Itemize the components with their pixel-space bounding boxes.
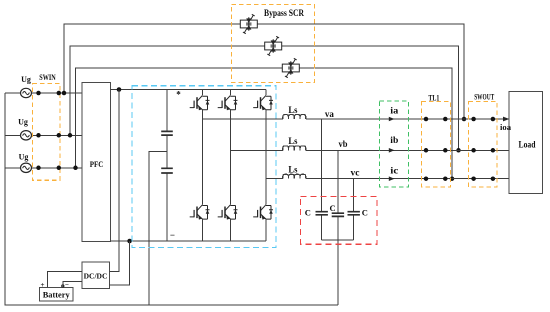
svg-text:va: va [325, 109, 335, 119]
svg-text:TL1: TL1 [428, 92, 439, 102]
wire battery positive to DC/DC [47, 271, 82, 287]
svg-text:−: − [170, 230, 175, 240]
IGBT Q3 upper leg3 with antiparallel diode [253, 95, 273, 110]
svg-text:C: C [362, 207, 368, 217]
current arrow ic [389, 176, 395, 181]
IGBT Q6 lower leg3 with antiparallel diode [253, 205, 273, 220]
svg-text:Bypass SCR: Bypass SCR [264, 8, 304, 18]
IGBT Q4 lower leg1 with antiparallel diode [190, 205, 210, 220]
svg-text:Load: Load [519, 140, 536, 150]
wire phase b to load [306, 149, 509, 151]
wire leg3 collector from DC+ [265, 90, 267, 96]
battery negative terminal mark [62, 285, 64, 287]
bypass SCR module phase A [240, 14, 257, 33]
junction dots TL1 phase a [424, 117, 429, 122]
svg-text:ia: ia [390, 105, 399, 115]
wire phase a to load [306, 118, 509, 120]
wire bypass phase A tap to SCR and to output node a [64, 24, 464, 119]
IGBT Q5 lower leg2 with antiparallel diode [218, 205, 238, 220]
inverter dashed box [132, 86, 276, 248]
AC source Ug phase B [21, 131, 32, 140]
wire phase C: source to PFC [5, 167, 82, 169]
wire leg2 collector from DC+ [230, 90, 232, 96]
output filter capacitor C phase b [337, 150, 339, 240]
wire capacitor bank common to neutral rail [337, 240, 339, 305]
wire phase B: source to PFC [5, 134, 82, 136]
svg-text:Ls: Ls [288, 105, 297, 115]
wire phase c leg3 to inductor [266, 178, 283, 180]
wire phase a leg1 to inductor [203, 118, 283, 120]
output filter capacitor C phase a [321, 119, 323, 240]
svg-text:Battery: Battery [43, 290, 71, 300]
svg-text:+: + [41, 281, 45, 289]
IGBT Q2 upper leg2 with antiparallel diode [218, 95, 238, 110]
wire leg2 emitter to DC- [230, 219, 232, 241]
inductor Ls phase a [283, 115, 306, 119]
wire capacitor bank common [322, 239, 354, 241]
svg-text:−: − [65, 281, 69, 289]
Load box [509, 92, 542, 194]
wire DC midpoint to neutral rail [149, 152, 167, 306]
svg-text:DC/DC: DC/DC [84, 272, 108, 281]
Bypass SCR dashed box [232, 5, 315, 83]
AC source Ug phase A [21, 88, 32, 97]
svg-text:C: C [305, 207, 311, 217]
svg-text:Ug: Ug [18, 118, 28, 127]
bypass SCR module phase B [265, 36, 282, 55]
wire DC/DC to DC bus positive [109, 90, 119, 272]
SWIN switch block dashed box [32, 84, 60, 181]
svg-text:Ls: Ls [288, 136, 297, 146]
svg-text:SWIN: SWIN [39, 72, 56, 82]
junction dots TL1 phase b [424, 148, 429, 153]
wire leg3 emitter to DC- [265, 219, 267, 241]
current arrow ia [389, 117, 395, 122]
svg-text:ib: ib [390, 135, 398, 145]
svg-text:Ug: Ug [19, 153, 29, 162]
wire DC bus negative [111, 240, 266, 242]
svg-text:Ls: Ls [288, 165, 297, 175]
wire neutral rail: sources common down left side and along bottom [5, 93, 338, 305]
PFC converter box [82, 83, 111, 242]
wire bypass phase B tap to SCR and to output node b [70, 46, 459, 150]
filter capacitor dashed box [301, 197, 378, 245]
Battery box [40, 288, 74, 301]
junction dots SWOUT phase a [471, 117, 476, 122]
SWOUT switch dashed box [469, 102, 498, 188]
wire DC bus positive [111, 89, 266, 91]
TL1 transformer dashed box [422, 102, 451, 188]
DC link capacitor upper [166, 90, 168, 152]
wire DC/DC to DC bus negative [109, 241, 129, 285]
junction dots SWOUT phase c [471, 176, 476, 181]
current sense dashed box [380, 101, 409, 187]
junction dots SWOUT phase b [471, 148, 476, 153]
inductor Ls phase c [283, 174, 306, 178]
DC/DC converter box [82, 262, 110, 289]
bypass SCR module phase C [282, 58, 299, 77]
junction dots TL1 phase c [424, 176, 429, 181]
arrow output current into load [503, 117, 509, 122]
DC link capacitor lower [166, 152, 168, 242]
svg-text:Ug: Ug [21, 75, 31, 84]
wire phase A: source to PFC [5, 92, 82, 94]
AC source Ug phase C [21, 163, 32, 172]
wire phase c to load [306, 178, 509, 180]
svg-text:vc: vc [351, 168, 360, 178]
IGBT Q1 upper leg1 with antiparallel diode [190, 95, 210, 110]
current arrow ib [389, 148, 395, 153]
wire leg3 phase node [265, 110, 267, 205]
junction dots SWIN terminals [36, 91, 41, 96]
output filter capacitor C phase c [353, 179, 355, 240]
inductor Ls phase b [283, 146, 306, 150]
svg-text:ic: ic [390, 166, 398, 176]
svg-text:C: C [330, 203, 336, 213]
wire leg1 emitter to DC- [202, 219, 204, 241]
wire bypass phase C tap to SCR and to output node c [76, 68, 453, 179]
svg-text:PFC: PFC [90, 159, 104, 169]
wire leg1 phase node [202, 110, 204, 205]
svg-text:*: * [176, 90, 181, 100]
wire leg2 phase node [230, 110, 232, 205]
wire leg1 collector from DC+ [202, 90, 204, 96]
wire phase b leg2 to inductor [231, 149, 283, 151]
svg-text:vb: vb [339, 139, 348, 149]
wire battery negative to DC/DC [63, 282, 82, 288]
svg-text:SWOUT: SWOUT [474, 92, 494, 102]
